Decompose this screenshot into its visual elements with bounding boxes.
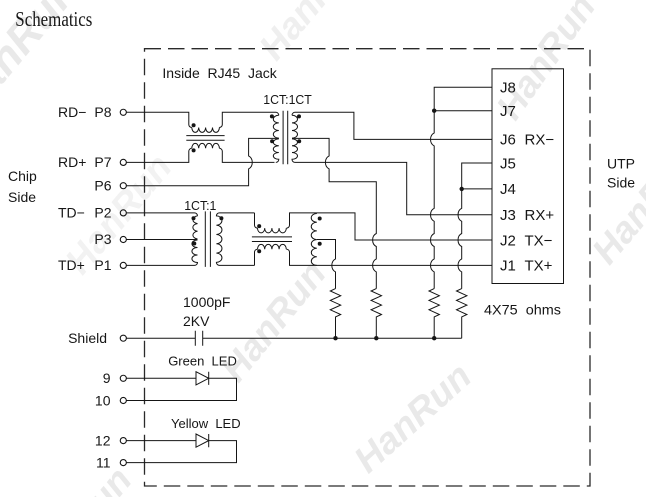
common-mode choke T2A top winding [258,228,287,233]
autotransformer T2B polarity dots [318,217,322,246]
label "Green LED" [168,353,237,368]
pin P6 terminal circle [120,183,126,189]
svg-text:Green LED: Green LED [168,353,237,368]
svg-text:RX+: RX+ [525,207,555,224]
svg-text:P3: P3 [94,231,111,247]
label pin Shield [68,330,107,346]
wire LED D2 cathode loop to pin 11 [126,441,236,463]
pin P3 terminal circle [120,236,126,242]
svg-text:J2: J2 [500,232,516,249]
wire T2B center tap to resistor R1 (hop over J1 line) [317,240,336,289]
transformer T1 core [283,111,288,165]
label "4X75 ohms" [484,302,561,318]
label J3 RX+ [500,207,554,224]
pin P8 terminal circle [120,109,126,115]
wire resistor common rail to capacitor C1 [203,337,462,339]
transformer T2 polarity dots [192,216,224,245]
label pin 9 [103,370,111,386]
resistor R4 75 ohm [457,289,467,339]
wire T2 secondary top into TD choke [255,213,258,228]
svg-text:1CT:1: 1CT:1 [184,198,216,213]
svg-text:Chip: Chip [8,168,37,184]
label pin 11 [96,455,111,471]
junction R1 rail [333,336,337,340]
label pin P1 [58,257,112,273]
wire T1 secondary center tap to resistor R2 (hops over P7, J2, J1 lines) [292,138,376,288]
transformer T1 primary top half winding [273,115,279,138]
transformer T1 polarity dots [270,114,301,143]
wire TD choke bottom output to J1 TX+ [287,249,493,265]
svg-text:2KV: 2KV [183,313,210,329]
svg-text:UTP: UTP [607,155,635,171]
svg-text:P6: P6 [94,177,111,193]
label pin P6 [94,177,111,193]
svg-text:J4: J4 [500,181,516,198]
resistor R1 75 ohm [330,289,340,339]
pin 11 terminal circle [120,460,126,466]
label J6 RX&#8722; [500,132,554,149]
common-mode choke T1A core [186,136,224,141]
RJ45 jack boundary (dashed box) [145,49,591,486]
wire J8/J7 column to resistor R3 (hops over J6,J3,J2,J1) [431,87,492,288]
label "1CT:1" [184,198,216,213]
connector J1-J8 (RJ45 jack pin block) [492,69,564,284]
svg-text:TD+: TD+ [58,257,85,273]
transformer T2 primary bottom half winding [192,240,198,265]
label "Inside RJ45 Jack" [162,65,277,81]
wire pin 12 to LED D2 anode [126,440,196,442]
svg-text:10: 10 [95,392,111,408]
svg-text:TX−: TX− [525,232,553,249]
label "1CT:1CT" [263,92,312,107]
LED D1 green [196,372,209,385]
transformer T2 primary top half winding [193,216,198,239]
junction R2 rail [374,336,378,340]
svg-text:P7: P7 [94,154,111,170]
transformer T1 primary bottom half winding [273,139,279,163]
svg-text:J7: J7 [500,103,516,120]
resistor R3 75 ohm [429,289,439,339]
svg-text:Side: Side [607,175,635,191]
wire P8 into RD choke top winding [126,112,192,127]
pin Shield terminal circle [120,335,126,341]
wire T2 secondary bottom into TD choke bottom winding [255,249,258,265]
title "Schematics" [15,7,92,31]
label J4 [500,181,516,198]
svg-text:RX−: RX− [525,132,555,149]
wire RD choke top output to T1 primary [219,112,278,127]
pin 12 terminal circle [120,438,126,444]
pin 10 terminal circle [120,397,126,403]
wire J4 stub [462,188,492,190]
svg-text:Side: Side [8,189,36,205]
junction J4/J5 column [460,187,464,191]
svg-text:12: 12 [95,433,111,449]
common-mode choke T1A bottom winding [192,143,220,148]
transformer T2 secondary winding [216,213,254,266]
svg-text:J5: J5 [500,155,516,172]
label "Yellow LED" [171,416,241,431]
resistor R2 75 ohm [371,289,381,339]
common-mode choke T2A bottom winding [258,244,287,249]
pin 9 terminal circle [120,375,126,381]
junction J7/J8 column [432,109,436,113]
label J8 [500,80,516,97]
svg-text:P8: P8 [94,104,111,120]
label pin P8 [58,104,112,120]
svg-text:P2: P2 [94,205,111,221]
label J1 TX+ [500,258,553,275]
label "1000pF 2KV" [183,294,230,329]
junction R3 rail [432,336,436,340]
transformer T1 secondary top half winding [292,115,298,138]
label pin 12 [95,433,111,449]
svg-text:TX+: TX+ [525,258,553,275]
svg-text:J6: J6 [500,132,516,149]
choke T1A polarity dots [192,123,196,152]
wire P2 to transformer T2 primary top [126,213,197,216]
wire P6 to T1 primary center tap (with hop over P7 wire) [126,138,279,185]
wire Shield pin to capacitor C1 [126,337,195,339]
wire RD choke bottom output to T1 primary bottom [219,148,274,162]
svg-text:RD−: RD− [58,104,86,120]
wire pin 9 to LED D1 anode [126,377,196,379]
label "UTP Side" [607,155,635,190]
common-mode choke T1A top winding [192,128,220,133]
label J2 TX&#8722; [500,232,553,249]
wire P7 to RD choke bottom winding [126,148,192,162]
transformer T1 secondary bottom half winding [292,139,298,163]
choke T2A polarity dots [257,224,261,253]
label pin 10 [95,392,111,408]
svg-text:Schematics: Schematics [15,7,92,31]
label J7 [500,103,516,120]
pin P2 terminal circle [120,210,126,216]
wire J5/J4 column to resistor R4 (hops over J3,J2,J1) [458,163,492,289]
svg-text:Shield: Shield [68,330,107,346]
pin P1 terminal circle [120,262,126,268]
svg-text:1000pF: 1000pF [183,294,230,310]
svg-text:J3: J3 [500,207,516,224]
svg-text:11: 11 [96,455,111,471]
svg-text:J8: J8 [500,80,516,97]
svg-text:P1: P1 [94,257,111,273]
autotransformer T2B winding (line side center tap) [311,214,317,266]
LED D2 yellow [196,434,209,447]
wire LED D1 cathode loop to pin 10 [126,378,236,400]
svg-text:Inside RJ45 Jack: Inside RJ45 Jack [162,65,277,81]
wire J7 stub [434,110,492,112]
wire T1 secondary bottom to J3 RX+ [295,162,492,214]
svg-text:1CT:1CT: 1CT:1CT [263,92,312,107]
wire P1 to T2 primary bottom [126,264,194,266]
label "Chip Side" [8,168,37,205]
wire P3 to T2 primary center tap [126,239,197,241]
svg-text:4X75 ohms: 4X75 ohms [484,302,561,318]
common-mode choke T2A core [252,237,292,242]
transformer T2 core [205,211,210,267]
label pin P2 [58,205,112,221]
svg-text:Yellow LED: Yellow LED [171,416,241,431]
svg-text:TD−: TD− [58,205,85,221]
svg-text:RD+: RD+ [58,154,86,170]
svg-text:9: 9 [103,370,111,386]
label pin P3 [94,231,111,247]
capacitor C1 1000pF 2KV [195,331,202,346]
label pin P7 [58,154,112,170]
wire TD choke top output to J2 TX- (via autotransformer top) [287,213,493,240]
svg-text:J1: J1 [500,258,516,275]
pin P7 terminal circle [120,159,126,165]
wire T1 secondary top to J6 RX- [292,112,492,139]
label J5 [500,155,516,172]
